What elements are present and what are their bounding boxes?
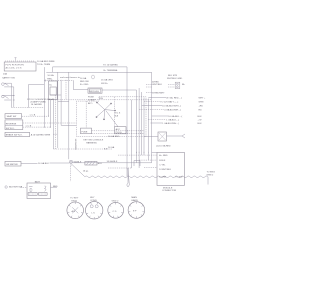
svg-text:B BLK: B BLK <box>159 160 166 162</box>
2-pin connector J5 <box>175 82 180 88</box>
svg-text:16 ga: 16 ga <box>83 170 89 172</box>
svg-text:16 GA RED: 16 GA RED <box>31 103 43 106</box>
svg-text:D WHT/BLK: D WHT/BLK <box>159 169 171 171</box>
fuse box in console <box>81 128 92 134</box>
svg-text:ATO: ATO <box>88 102 93 105</box>
svg-text:BRAKE SW N.O.: BRAKE SW N.O. <box>6 134 23 137</box>
svg-text:B A: B A <box>115 114 119 117</box>
wire to battery <box>21 186 28 188</box>
svg-text:A + RED: A + RED <box>159 154 168 157</box>
long row <box>49 99 152 101</box>
svg-text:B+ ORG: B+ ORG <box>80 84 89 86</box>
svg-text:BATT: BATT <box>35 181 41 184</box>
svg-text:16 GA BLK/WHT...(: 16 GA BLK/WHT...( <box>162 104 181 107</box>
key switch S3 <box>96 98 121 120</box>
wire: feeder drop <box>43 67 45 127</box>
svg-text:W. GA. RED....(: W. GA. RED....( <box>166 96 182 99</box>
svg-text:RD: RD <box>199 109 203 111</box>
svg-text:A 16 GA RED WIRE: A 16 GA RED WIRE <box>31 134 51 137</box>
svg-text:HARNESS: HARNESS <box>86 142 97 145</box>
svg-text:AC C1 B+ L G S: AC C1 B+ L G S <box>6 67 22 70</box>
svg-text:FUSE: FUSE <box>82 131 88 133</box>
svg-text:C YEL: C YEL <box>159 165 166 167</box>
svg-text:GND 2: GND 2 <box>112 200 119 202</box>
hour meter B4 <box>5 161 21 166</box>
svg-text:PLUG: PLUG <box>116 132 122 134</box>
vertical below merge <box>70 166 72 182</box>
wire: switch bus down <box>11 83 13 107</box>
svg-text:B+ TERMINAL: B+ TERMINAL <box>104 69 119 72</box>
wire from B1 <box>22 115 49 117</box>
wire from B2 <box>23 126 51 128</box>
wire row y80 <box>58 79 74 81</box>
solenoid outline box <box>29 85 45 108</box>
wavy ground lead <box>85 176 208 178</box>
diagonal to accessory <box>106 111 118 127</box>
splice box <box>85 162 97 166</box>
accessory box in console <box>115 127 126 134</box>
solenoid K1 <box>44 80 61 100</box>
connector C3 <box>108 200 124 218</box>
diagonal to wavy <box>72 165 85 177</box>
svg-text:L C B: L C B <box>30 115 36 117</box>
svg-text:TO 12V BATT +...(: TO 12V BATT +...( <box>160 100 178 103</box>
svg-text:C D: C D <box>113 211 117 213</box>
diamond end <box>127 168 130 187</box>
svg-text:20 AMP: 20 AMP <box>88 99 96 102</box>
battery BAT1 <box>27 181 51 199</box>
svg-text:B RED/WHT: B RED/WHT <box>152 92 165 94</box>
connector C2 <box>86 197 103 219</box>
svg-text:16 GA BLK....(: 16 GA BLK....( <box>168 115 182 118</box>
svg-text:16 GA BLK: 16 GA BLK <box>38 162 49 165</box>
svg-text:16 GA BLK: 16 GA BLK <box>107 160 118 163</box>
svg-text:BLK: BLK <box>198 123 203 125</box>
wire: upper top run <box>53 67 127 72</box>
svg-text:+RD: +RD <box>199 105 204 107</box>
svg-text:A B: A B <box>72 210 76 213</box>
console dashed box <box>76 97 146 137</box>
row y149 <box>53 148 112 150</box>
connector C4 <box>128 196 145 218</box>
small corner box <box>134 161 140 167</box>
middle verticals <box>48 100 50 116</box>
svg-text:SEAT SW: SEAT SW <box>7 115 18 118</box>
relay R1 <box>144 132 167 141</box>
seat switch B1 <box>5 114 22 119</box>
svg-text:TO ENG: TO ENG <box>207 172 216 174</box>
svg-text:BLK STR: BLK STR <box>168 75 178 77</box>
svg-text:1 GA BLK/WH...(: 1 GA BLK/WH...( <box>162 122 179 125</box>
svg-text:BLK: BLK <box>98 163 103 165</box>
svg-text:SW N.O.: SW N.O. <box>6 128 15 130</box>
svg-text:(1) 16 GA RED: (1) 16 GA RED <box>156 145 171 148</box>
svg-text:RED SW: RED SW <box>80 81 90 83</box>
svg-text:16 GA: 16 GA <box>80 77 87 80</box>
svg-text:1 GA BLK....(: 1 GA BLK....( <box>166 119 179 122</box>
svg-text:4 GA BLK/WH...(: 4 GA BLK/WH...( <box>164 108 181 111</box>
svg-text:GA BLK: GA BLK <box>74 160 82 163</box>
terminal loop <box>92 75 95 79</box>
svg-text:SW B+: SW B+ <box>101 83 109 85</box>
svg-text:KEY: KEY <box>90 197 95 199</box>
svg-text:HR METER: HR METER <box>6 164 18 166</box>
svg-text:10 GA: 10 GA <box>47 74 54 77</box>
wire right from merge <box>73 162 152 164</box>
svg-text:REVERSE: REVERSE <box>6 123 17 125</box>
row y123 <box>23 122 77 124</box>
svg-text:WHT/BLK: WHT/BLK <box>152 84 162 86</box>
svg-text:E GRN: E GRN <box>159 177 166 179</box>
merge node <box>69 160 72 166</box>
svg-text:M L S: M L S <box>115 113 121 115</box>
svg-text:SW A: SW A <box>71 199 77 202</box>
svg-text:WHT +: WHT + <box>199 97 207 99</box>
svg-text:GRN 2: GRN 2 <box>207 174 214 176</box>
svg-text:MODULE: MODULE <box>90 91 100 93</box>
svg-text:16 GA RED: 16 GA RED <box>74 139 77 151</box>
svg-text:SAFETY SW: SAFETY SW <box>2 77 16 80</box>
svg-text:L C B: L C B <box>26 125 32 127</box>
svg-text:IGN: IGN <box>99 98 103 100</box>
brake switch B3 <box>5 132 30 136</box>
fuse block F1 <box>4 57 36 71</box>
wire: lower top run <box>46 71 151 73</box>
svg-text:BLK: BLK <box>198 116 203 118</box>
svg-text:L S: L S <box>92 213 96 215</box>
svg-text:TO KEY: TO KEY <box>70 198 79 200</box>
svg-text:CONN: CONN <box>90 200 97 202</box>
svg-text:WHT/BLK GND: WHT/BLK GND <box>167 78 183 80</box>
svg-text:10 GA RED WIRE: 10 GA RED WIRE <box>37 60 55 63</box>
reverse switch B2 <box>5 120 23 130</box>
svg-text:TO B+ TERM: TO B+ TERM <box>37 64 50 66</box>
pto switch SW2 <box>2 95 14 100</box>
svg-text:A RED: A RED <box>152 80 159 83</box>
svg-text:16 GA ORG: 16 GA ORG <box>101 79 113 82</box>
svg-text:16 GA RED: 16 GA RED <box>108 135 120 138</box>
svg-text:GRN: GRN <box>199 101 204 103</box>
wire from battery <box>51 186 58 188</box>
svg-text:TO SW: TO SW <box>175 177 183 179</box>
bus verticals <box>126 67 128 176</box>
svg-text:20A: 20A <box>3 73 7 76</box>
connector C1 <box>67 198 84 219</box>
svg-text:16 GA: 16 GA <box>108 146 115 149</box>
right label rows <box>139 96 206 125</box>
svg-text:HARN: HARN <box>131 199 138 202</box>
harness module R2 <box>152 152 185 185</box>
svg-text:MAIN: MAIN <box>131 196 137 199</box>
wire: row to solenoid box <box>11 106 28 108</box>
svg-text:CONNECTOR: CONNECTOR <box>162 190 176 192</box>
svg-text:and conn harness to: and conn harness to <box>60 76 81 79</box>
svg-text:KEY SW CONSOLE: KEY SW CONSOLE <box>83 139 103 141</box>
wire from B4 <box>21 163 38 165</box>
module box M2 <box>88 88 102 93</box>
junction rows in bus <box>92 130 145 132</box>
svg-text:RED: RED <box>47 78 52 80</box>
console feed verticals <box>85 101 87 128</box>
ground ring terminal <box>5 186 23 189</box>
row y168 <box>108 167 132 169</box>
svg-text:FUSE: FUSE <box>88 96 94 98</box>
svg-text:ACC: ACC <box>116 128 121 131</box>
svg-text:RED: RED <box>53 186 58 188</box>
svg-text:F1 F2 F3 F4 F5 F6: F1 F2 F3 F4 F5 F6 <box>6 64 25 66</box>
svg-text:TO 10 GA RED: TO 10 GA RED <box>103 64 118 67</box>
brake switch SW1 <box>2 83 14 87</box>
